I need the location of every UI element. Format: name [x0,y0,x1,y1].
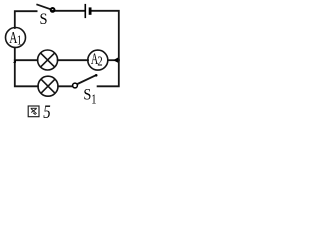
wire bottom row center (lamp L2 to S1) [58,85,72,87]
ammeter A1 [6,28,26,49]
lamp L1 [38,50,58,70]
svg-text:S: S [83,86,91,104]
wire middle row right (A2 to right wall) [108,59,119,61]
svg-text:2: 2 [97,53,102,69]
svg-text:1: 1 [17,32,22,48]
battery B1 [85,4,90,18]
svg-text:S: S [40,10,48,28]
wire top-right segment (battery to right wall) [91,11,118,60]
switch S1 [73,74,98,88]
wire left wall (A1 to bottom corner) [15,48,38,87]
wire middle row center (lamp L1 to A2) [58,59,88,61]
label figure caption 图 5 [28,101,51,122]
wire right wall lower [98,60,119,86]
svg-text:5: 5 [43,101,50,122]
lamp L2 [38,76,58,96]
ammeter A2 [88,50,108,70]
wire middle row left [15,59,38,61]
wire top-left segment [15,11,37,28]
svg-text:1: 1 [91,91,96,107]
node junction right (middle wire meets right wall) [113,58,118,63]
wire top-middle segment (switch to battery) [53,10,85,12]
switch S [36,4,54,11]
label S1 [83,86,96,107]
node junction left (middle wire meets left wall) [13,60,16,63]
